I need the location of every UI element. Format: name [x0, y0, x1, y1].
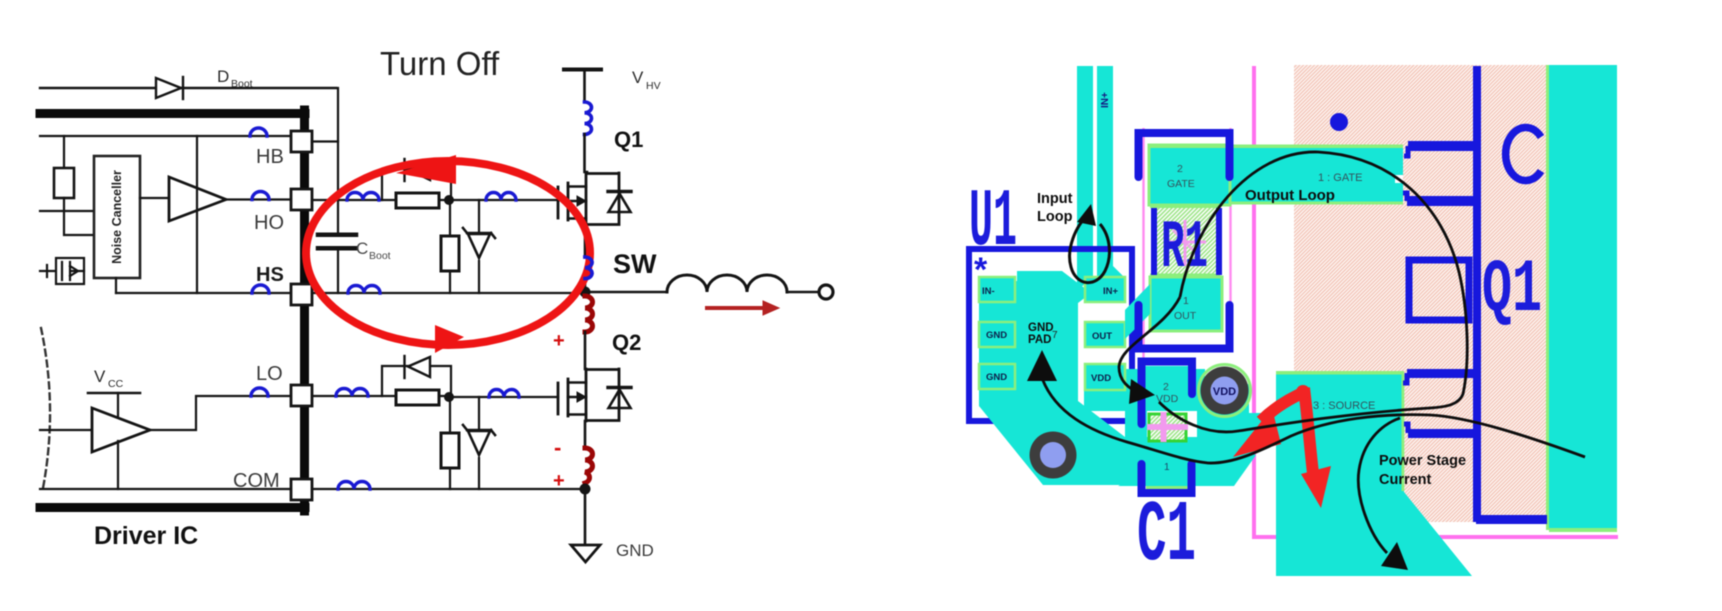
- ferrite bump HB internal: [250, 128, 267, 136]
- Q1 gate finger bar 2: [1407, 196, 1475, 206]
- svg-text:V: V: [94, 367, 106, 386]
- svg-text:C1: C1: [1137, 487, 1196, 585]
- input loop arrow: [1070, 214, 1110, 283]
- wire D_Boot top rail: [40, 87, 336, 89]
- power stage branch to bottom arrow: [1358, 418, 1400, 553]
- R1 outline top bracket: [1139, 133, 1230, 177]
- label 2 VDD: [1156, 381, 1179, 405]
- zener clamp low: [478, 397, 480, 489]
- svg-text:IN+: IN+: [1103, 286, 1119, 297]
- svg-text:GATE: GATE: [1167, 178, 1195, 190]
- node high gate junction: [444, 195, 454, 205]
- C1 pad cross pink: [1147, 412, 1188, 442]
- parasitic inductance drain blue: [585, 102, 592, 134]
- parasitic inductance SW dark red: [585, 296, 593, 332]
- R1 outline bottom bracket: [1139, 305, 1230, 349]
- svg-text:Q1: Q1: [1482, 248, 1542, 333]
- R1 pad crosshair pink: [1164, 220, 1206, 266]
- svg-text:Boot: Boot: [231, 78, 253, 90]
- C1 outline top bracket: [1142, 362, 1193, 425]
- node ground junction: [580, 484, 591, 495]
- V_HV supply bar: [564, 68, 601, 72]
- pad texts: [982, 286, 1119, 384]
- source pour polygon: [1276, 373, 1472, 576]
- wire COM internal: [40, 488, 291, 490]
- board outline pink left: [1252, 66, 1256, 538]
- wire HO gate line: [312, 199, 558, 201]
- label 1 OUT: [1174, 295, 1197, 322]
- gate band 1:GATE: [1150, 146, 1403, 204]
- C1 capacitor body hatched pad: [1149, 414, 1186, 441]
- bar3 hook: [1403, 373, 1407, 383]
- ferrite bead to Q1 gate: [486, 193, 516, 200]
- R1 resistor body hatched pad: [1152, 207, 1218, 275]
- via VDD outer ring: [1201, 367, 1249, 415]
- IN+ trace right: [1097, 66, 1124, 290]
- transistor Q2: [558, 369, 631, 421]
- bottom arrowhead: [1381, 542, 1408, 570]
- svg-text:CC: CC: [108, 378, 124, 390]
- source pad green top edge: [1276, 371, 1404, 375]
- anti-parallel diode loop high: [382, 169, 451, 200]
- wire amp to LO pin: [150, 396, 291, 430]
- svg-text:HB: HB: [256, 146, 284, 168]
- wire SW output: [585, 291, 667, 294]
- svg-text:GND: GND: [1028, 322, 1054, 334]
- via VDD barrel: [1211, 377, 1239, 405]
- current arrow under inductor: [707, 301, 779, 315]
- C1 pin1 pad teal: [1147, 442, 1187, 486]
- red loop arrowhead bottom: [435, 325, 464, 353]
- U1 pad GND2: [979, 364, 1015, 389]
- svg-text:IN-: IN-: [982, 286, 995, 297]
- U1 component outline blue box: [969, 249, 1132, 421]
- noise canceller box: [94, 156, 140, 278]
- parasitic inductance source dark red: [585, 448, 593, 483]
- svg-text:1: 1: [1183, 295, 1189, 307]
- svg-text:GND: GND: [986, 330, 1007, 341]
- C1 pad 2 VDD region: [1145, 366, 1195, 404]
- label 2 GATE: [1167, 163, 1195, 190]
- wire Vcc to amp: [117, 393, 119, 420]
- Q1 gate finger bar 1: [1408, 141, 1476, 151]
- bar2 hook: [1403, 193, 1407, 201]
- source pour green right edge: [1402, 374, 1405, 491]
- Q1 bottom pad L bar: [1476, 515, 1547, 524]
- svg-text:V: V: [632, 68, 644, 87]
- output inductor: [667, 275, 787, 292]
- wire to Q1 drain: [585, 134, 588, 172]
- pin box HS: [291, 284, 312, 305]
- svg-text:D: D: [217, 67, 229, 86]
- wire HB to bootstrap node: [312, 140, 338, 142]
- node low gate junction: [444, 392, 454, 402]
- svg-text:Power Stage: Power Stage: [1379, 453, 1466, 469]
- pin box HB: [291, 131, 312, 152]
- wire HS to switch node: [312, 292, 585, 294]
- svg-text:SW: SW: [613, 249, 657, 279]
- svg-text:PAD: PAD: [1028, 334, 1051, 346]
- R1 side bar right: [1216, 208, 1222, 275]
- pin labels: [233, 146, 284, 492]
- svg-text:1 : GATE: 1 : GATE: [1318, 172, 1362, 184]
- green edge left of copper bar: [1546, 65, 1549, 530]
- wire amp to HO pin: [226, 198, 291, 200]
- svg-text:HS: HS: [256, 264, 284, 286]
- output loop arrowhead: [1129, 379, 1155, 404]
- svg-text:HO: HO: [254, 212, 284, 234]
- red arrowhead down: [1301, 466, 1331, 508]
- parasitic inductance source blue: [585, 257, 592, 279]
- bar4 hook: [1404, 424, 1408, 433]
- red arrowhead down-left: [1233, 408, 1281, 457]
- clamp resistor low: [449, 402, 451, 489]
- label C_Boot: [356, 239, 391, 262]
- Q1 drain pad open square: [1409, 260, 1469, 320]
- Q1 tall pad rail: [1473, 66, 1481, 522]
- transistor internal small: [40, 258, 84, 284]
- svg-text:3 : SOURCE: 3 : SOURCE: [1313, 400, 1375, 412]
- svg-text:COM: COM: [233, 470, 280, 492]
- capacitor C_Boot: [318, 235, 356, 293]
- svg-text:OUT: OUT: [1174, 310, 1197, 322]
- red loop arrowhead top: [396, 155, 456, 184]
- courtyard pink line right: [1229, 128, 1231, 344]
- wire resistor to noise canceller: [64, 198, 94, 235]
- diode D_Boot: [156, 77, 183, 99]
- right copper bar teal: [1549, 65, 1617, 530]
- ferrite bump HS internal: [252, 285, 269, 293]
- wire HB internal: [40, 135, 291, 137]
- output loop curve: [1159, 152, 1467, 432]
- C1 outline bottom bracket: [1142, 464, 1192, 493]
- wire Q1 source to SW: [584, 225, 587, 257]
- wire HS internal: [116, 292, 291, 294]
- wire input to low side amp: [40, 429, 92, 431]
- copper around via: [1197, 384, 1249, 437]
- svg-text:Loop: Loop: [1037, 209, 1073, 225]
- wire branch to resistor: [63, 136, 65, 168]
- transistor Q1: [558, 173, 631, 225]
- wire amp to COM line: [117, 441, 119, 489]
- R1 side bar left: [1151, 208, 1157, 275]
- svg-text:Boot: Boot: [369, 250, 391, 262]
- pin box LO: [291, 385, 312, 406]
- power stage ground arrow: [1027, 350, 1057, 381]
- clamp resistor high: [449, 205, 451, 293]
- svg-text:IN+: IN+: [1100, 92, 1111, 108]
- pour band lower edge diagonal: [1118, 443, 1256, 486]
- svg-text:Noise Canceller: Noise Canceller: [110, 170, 124, 264]
- ferrite bead to Q2 gate: [489, 390, 519, 398]
- label D_Boot: [217, 67, 253, 90]
- Q1 orientation C ring: [1506, 128, 1541, 181]
- svg-text:Driver IC: Driver IC: [94, 522, 198, 550]
- label V_HV: [632, 68, 661, 92]
- pad 2 GATE green border: [1149, 145, 1230, 205]
- Q1 pin1 dot: [1330, 113, 1348, 131]
- via VDD green halo: [1199, 365, 1251, 417]
- svg-text:7: 7: [1052, 330, 1058, 341]
- buffer amp low side: [92, 408, 150, 452]
- red current arrow down branch: [1304, 388, 1313, 473]
- svg-text:-: -: [554, 435, 561, 460]
- trace OUT to pad1 diagonal: [1125, 284, 1150, 339]
- svg-text:+: +: [553, 330, 565, 352]
- svg-text:VDD: VDD: [1213, 386, 1236, 398]
- ferrite bead COM external: [338, 482, 370, 489]
- U1 pad VDD: [1085, 364, 1125, 390]
- pin box HO: [291, 189, 312, 210]
- U1 ground pour with band to C1: [979, 271, 1277, 485]
- dashed die boundary arc: [41, 328, 50, 488]
- terminal circle: [819, 285, 833, 299]
- anti-parallel diode loop low: [382, 366, 451, 397]
- IN+ trace left: [1077, 66, 1093, 290]
- via GND barrel: [1040, 442, 1066, 468]
- wire inductor to terminal: [787, 291, 818, 294]
- ferrite bead HO external: [347, 193, 379, 200]
- wire noise canceller to HS line: [115, 278, 117, 293]
- Driver IC box thick top edge: [40, 109, 305, 118]
- label Vcc: [94, 367, 124, 390]
- gate resistor low: [396, 390, 439, 405]
- red current arrow pcb: [1261, 391, 1307, 421]
- svg-text:Q1: Q1: [614, 127, 643, 152]
- Vcc rail bar: [88, 392, 140, 395]
- bar1 hook: [1404, 146, 1408, 156]
- wire bootstrap vertical: [337, 88, 339, 233]
- wire to Q2 drain: [584, 332, 587, 369]
- wire into SW node: [584, 278, 587, 293]
- wire Q2 source: [584, 421, 587, 448]
- wire into noise canceller: [40, 210, 94, 212]
- gate resistor high: [396, 193, 439, 208]
- U1 pad IN+: [1085, 277, 1125, 302]
- svg-text:VDD: VDD: [1091, 373, 1111, 384]
- ferrite bump HO internal: [252, 192, 269, 200]
- courtyard pink line left: [1142, 128, 1144, 470]
- svg-text:1: 1: [1164, 462, 1170, 473]
- svg-text:Turn Off: Turn Off: [380, 45, 500, 82]
- wire to GND: [584, 489, 587, 545]
- svg-text:2: 2: [1163, 381, 1169, 393]
- red turn-off loop ellipse: [306, 161, 590, 345]
- Q1 source finger bar 4: [1408, 429, 1476, 438]
- U1 pad GND1: [979, 322, 1015, 347]
- svg-text:GND: GND: [986, 372, 1007, 383]
- C1 left teal column: [1125, 369, 1147, 485]
- svg-text:2: 2: [1177, 163, 1183, 175]
- svg-text:LO: LO: [256, 363, 283, 385]
- svg-text:OUT: OUT: [1092, 331, 1112, 342]
- pin box COM: [291, 479, 312, 500]
- svg-text:Output Loop: Output Loop: [1245, 187, 1335, 204]
- svg-text:+: +: [553, 470, 565, 492]
- svg-text:C: C: [356, 239, 368, 258]
- power stage current curve: [1042, 378, 1585, 463]
- VDD horizontal band U1 to via: [1084, 369, 1205, 411]
- gate band green top edge: [1150, 145, 1403, 149]
- ferrite bead HS external: [348, 286, 380, 293]
- Q1 source finger bar 3: [1407, 369, 1475, 378]
- resistor internal: [54, 168, 74, 198]
- input loop arrowhead: [1077, 204, 1096, 226]
- svg-text:Q2: Q2: [612, 330, 641, 355]
- svg-text:GND: GND: [616, 541, 654, 560]
- U1 pad OUT: [1085, 322, 1125, 347]
- Driver IC box thick bottom edge: [40, 503, 305, 512]
- svg-text:HV: HV: [646, 80, 661, 92]
- ferrite bead LO external: [336, 389, 368, 396]
- svg-text:Input: Input: [1037, 191, 1073, 207]
- C1 pin1 pad green bottom edge: [1146, 486, 1188, 490]
- ground symbol: [571, 545, 600, 562]
- buffer amp high side: [140, 197, 169, 199]
- parasitic inductance source blue redraw: [585, 257, 592, 279]
- right copper bar green edge: [1549, 528, 1617, 532]
- board outline pink bottom: [1252, 535, 1618, 539]
- pad 1 OUT teal: [1150, 277, 1222, 331]
- via GND outer ring: [1030, 432, 1077, 479]
- svg-text:U1: U1: [969, 176, 1017, 269]
- Driver IC box thick right edge: [300, 110, 309, 511]
- gate band right notch: [1395, 175, 1403, 183]
- U1 pad IN-: [979, 277, 1015, 302]
- R1 body green edges: [1150, 205, 1220, 278]
- svg-text:Current: Current: [1379, 472, 1432, 488]
- node SW: [580, 287, 591, 298]
- wire LO gate line: [312, 396, 558, 397]
- zener clamp high: [478, 200, 480, 293]
- gate band green bottom edge: [1229, 202, 1403, 205]
- ferrite bump LO internal: [251, 388, 268, 396]
- pour bottom rectangle: [1043, 462, 1234, 485]
- Q1 copper hatch field: [1294, 65, 1549, 522]
- wire vertical crossing amp: [196, 136, 198, 293]
- output loop tail to arrow: [1119, 297, 1180, 393]
- wire COM to ground node: [312, 488, 585, 490]
